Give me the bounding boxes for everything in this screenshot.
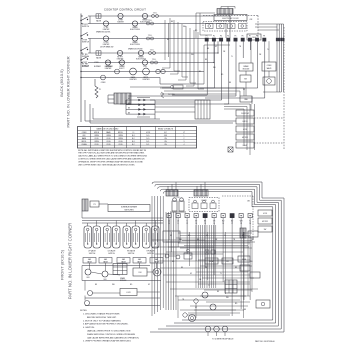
svg-text:T.O.D.: T.O.D. xyxy=(152,59,157,61)
svg-text:GY: GY xyxy=(206,235,208,237)
svg-text:IGNITER: IGNITER xyxy=(103,29,110,31)
svg-text:WH: WH xyxy=(179,239,182,241)
svg-text:SWITCH: SWITCH xyxy=(89,253,96,255)
svg-text:TN: TN xyxy=(182,299,184,301)
svg-text:CAUTION: LABEL ALL WIRES PRIOR: CAUTION: LABEL ALL WIRES PRIOR TO DISCON… xyxy=(78,155,148,158)
svg-text:BK: BK xyxy=(95,284,97,286)
svg-text:3: 3 xyxy=(184,141,185,143)
svg-text:USE COPPER WIRE ONLY. SEE INS: USE COPPER WIRE ONLY. SEE INSTALLATION I… xyxy=(78,163,135,166)
svg-text:YL: YL xyxy=(231,56,233,58)
svg-text:WH: WH xyxy=(251,239,254,241)
svg-text:N.C.: N.C. xyxy=(146,144,150,146)
svg-text:N.O.: N.O. xyxy=(132,135,136,137)
svg-text:WH: WH xyxy=(183,26,186,28)
svg-text:CAN CAUSE IMPROPER AND DANGERO: CAN CAUSE IMPROPER AND DANGEROUS OPERATI… xyxy=(87,336,140,339)
svg-text:1: 1 xyxy=(184,135,185,137)
svg-text:3. APPLIANCE MUST BE PROPERLY: 3. APPLIANCE MUST BE PROPERLY GROUNDED. xyxy=(83,323,129,326)
svg-text:BU: BU xyxy=(197,239,199,241)
svg-text:NOTE: ALL SWITCHES & IGNITORS: NOTE: ALL SWITCHES & IGNITORS SHOWN WITH… xyxy=(78,149,147,152)
svg-text:BU: BU xyxy=(229,82,231,84)
svg-text:BU: BU xyxy=(181,267,183,269)
svg-text:SURFACE BURNER: SURFACE BURNER xyxy=(121,206,138,209)
svg-text:T.O.D.: T.O.D. xyxy=(153,12,158,14)
svg-text:GY: GY xyxy=(190,255,192,257)
svg-text:YL: YL xyxy=(208,285,210,287)
svg-text:BK: BK xyxy=(235,267,237,269)
svg-text:TO 4 WIRE RECEPTACLE: TO 4 WIRE RECEPTACLE xyxy=(212,338,234,341)
svg-text:WHEN SERVICING CONTROLS. WIRIN: WHEN SERVICING CONTROLS. WIRING PROBLEMS xyxy=(87,334,136,336)
svg-text:PART NO. 8101P538-60: PART NO. 8101P538-60 xyxy=(255,340,275,343)
svg-text:COOKTOP CONTROL CIRCUIT: COOKTOP CONTROL CIRCUIT xyxy=(104,8,146,12)
svg-text:OPERATION. VERIFY PROPER OPERA: OPERATION. VERIFY PROPER OPERATION AFTER… xyxy=(78,160,144,163)
svg-text:P3: P3 xyxy=(220,36,222,38)
svg-text:YL: YL xyxy=(220,273,222,275)
svg-text:BK: BK xyxy=(167,39,169,41)
svg-text:BK: BK xyxy=(128,112,130,114)
svg-text:1. DISCONNECT RANGE FROM POWER: 1. DISCONNECT RANGE FROM POWER xyxy=(83,313,120,316)
svg-text:RT FRT: RT FRT xyxy=(118,62,124,64)
svg-text:N.C.: N.C. xyxy=(146,141,150,143)
svg-text:BK: BK xyxy=(128,108,130,110)
svg-text:P1: P1 xyxy=(99,89,101,91)
svg-text:LIGHT: LIGHT xyxy=(243,145,248,147)
svg-text:CLOCK: CLOCK xyxy=(201,200,207,202)
svg-text:SWITCH: SWITCH xyxy=(82,42,90,44)
svg-text:YL: YL xyxy=(267,49,269,51)
svg-text:P4: P4 xyxy=(227,36,229,38)
svg-text:BEFORE SERVICING THIS UNIT.: BEFORE SERVICING THIS UNIT. xyxy=(87,317,117,319)
svg-text:THE OFF POSITION. ALL SWITCHES: THE OFF POSITION. ALL SWITCHES ARE SHOWN… xyxy=(78,152,145,155)
svg-text:MODE: MODE xyxy=(94,132,99,134)
svg-text:P3: P3 xyxy=(94,204,96,206)
svg-text:ELECTRONIC CLOCK: ELECTRONIC CLOCK xyxy=(222,18,239,20)
svg-text:2: 2 xyxy=(184,138,185,140)
svg-text:BU: BU xyxy=(207,48,209,50)
svg-text:OFF: OFF xyxy=(82,135,85,137)
svg-text:P6: P6 xyxy=(242,36,244,38)
svg-text:MODULE: MODULE xyxy=(243,68,250,70)
svg-text:DOOR SW: DOOR SW xyxy=(241,113,249,115)
svg-text:BURNER: BURNER xyxy=(106,66,114,68)
svg-text:4: 4 xyxy=(184,144,185,146)
svg-text:P2: P2 xyxy=(213,36,215,38)
svg-text:BROIL: BROIL xyxy=(82,141,87,143)
svg-text:SWITCH: SWITCH xyxy=(128,253,135,255)
svg-text:BACK (8X10.5): BACK (8X10.5) xyxy=(59,69,64,97)
svg-text:IGNITER: IGNITER xyxy=(143,79,151,81)
svg-text:T.O.D.: T.O.D. xyxy=(148,35,153,37)
svg-text:LABEL ALL WIRES PRIOR TO DISCO: LABEL ALL WIRES PRIOR TO DISCONNECTION xyxy=(87,330,131,333)
svg-text:BU: BU xyxy=(244,309,246,311)
svg-text:GY: GY xyxy=(195,307,197,309)
svg-text:ELECTRODE: ELECTRODE xyxy=(130,44,140,46)
svg-text:IGNITER: IGNITER xyxy=(105,68,112,70)
svg-text:4. CAUTION:: 4. CAUTION: xyxy=(83,326,95,329)
svg-text:LT FRT: LT FRT xyxy=(118,20,123,22)
svg-text:MOTOR: MOTOR xyxy=(242,137,249,139)
svg-text:CONTROLS. WIRING ERRORS CAN CA: CONTROLS. WIRING ERRORS CAN CAUSE IMPROP… xyxy=(78,158,145,161)
svg-text:BK: BK xyxy=(171,21,173,23)
svg-text:WH: WH xyxy=(191,54,194,56)
svg-text:ELECTRODE: ELECTRODE xyxy=(130,29,140,31)
svg-text:PART NO. IN LOWER RIGHT CORNER: PART NO. IN LOWER RIGHT CORNER xyxy=(66,56,71,127)
svg-text:N.O.: N.O. xyxy=(132,141,136,143)
svg-text:TN: TN xyxy=(233,239,235,241)
svg-text:BK: BK xyxy=(242,235,244,237)
svg-text:2. MOTOR ONLY TO FLEXIBLE HARN: 2. MOTOR ONLY TO FLEXIBLE HARNESS. xyxy=(83,319,122,322)
svg-text:P1: P1 xyxy=(206,36,208,38)
svg-text:OFF: OFF xyxy=(164,135,167,137)
svg-text:P5: P5 xyxy=(234,36,236,38)
svg-text:P8: P8 xyxy=(256,36,258,38)
svg-text:BURNER: BURNER xyxy=(94,66,102,68)
svg-text:SWITCH: SWITCH xyxy=(82,26,90,28)
svg-text:BURNER: BURNER xyxy=(82,66,90,68)
svg-text:BROIL: BROIL xyxy=(118,132,123,134)
svg-text:P7: P7 xyxy=(249,36,251,38)
svg-text:OVEN: OVEN xyxy=(267,65,271,67)
svg-text:SWITCH: SWITCH xyxy=(147,253,154,255)
svg-text:WH: WH xyxy=(112,284,115,286)
svg-text:SWITCH: SWITCH xyxy=(108,253,115,255)
svg-text:N.C.: N.C. xyxy=(132,138,136,140)
svg-text:FRONT (8X10.5): FRONT (8X10.5) xyxy=(60,249,65,280)
svg-text:PART NO. IN LOWER RIGHT CORNER: PART NO. IN LOWER RIGHT CORNER xyxy=(68,223,73,300)
svg-text:BK: BK xyxy=(170,235,172,237)
svg-text:RT RR: RT RR xyxy=(106,62,112,64)
svg-text:GY: GY xyxy=(243,89,245,91)
svg-text:IGNITER: IGNITER xyxy=(130,79,138,81)
svg-text:YL: YL xyxy=(224,235,226,237)
svg-text:5. VERIFY PROPER OPERATION AFT: 5. VERIFY PROPER OPERATION AFTER SERVICI… xyxy=(83,340,132,343)
svg-text:TN: TN xyxy=(239,46,241,48)
svg-text:RT FRT: RT FRT xyxy=(117,57,123,59)
svg-text:WH: WH xyxy=(250,261,253,263)
svg-text:T.O.D.: T.O.D. xyxy=(150,49,155,51)
svg-text:BK: BK xyxy=(128,98,130,100)
svg-text:N.C.: N.C. xyxy=(132,144,136,146)
svg-text:P9: P9 xyxy=(263,36,265,38)
svg-text:MOTOR: MOTOR xyxy=(262,221,269,223)
svg-text:LT: LT xyxy=(183,132,185,134)
svg-text:WH: WH xyxy=(213,67,216,69)
svg-text:WH: WH xyxy=(226,297,229,299)
svg-text:BK: BK xyxy=(205,59,207,61)
svg-text:T.O.D.: T.O.D. xyxy=(148,20,153,22)
svg-text:L1: L1 xyxy=(133,132,135,134)
svg-text:RELAY CONTACTS: RELAY CONTACTS xyxy=(158,128,174,131)
svg-text:N.O.: N.O. xyxy=(146,135,150,137)
svg-text:BAKE LOW ON UNLOCKED: BAKE LOW ON UNLOCKED xyxy=(97,128,119,131)
svg-text:BK: BK xyxy=(217,291,219,293)
svg-text:LT FRT: LT FRT xyxy=(82,62,87,64)
svg-text:GY: GY xyxy=(190,273,192,275)
svg-text:IGN: IGN xyxy=(87,277,90,279)
svg-text:MODULE: MODULE xyxy=(120,280,126,282)
svg-text:NOTES:: NOTES: xyxy=(80,310,88,312)
svg-text:SWITCHES: SWITCHES xyxy=(124,209,134,211)
svg-text:RT RR: RT RR xyxy=(104,42,110,44)
svg-text:GY: GY xyxy=(148,284,150,286)
svg-text:ELECT.: ELECT. xyxy=(119,68,125,70)
svg-text:N.O.: N.O. xyxy=(146,138,150,140)
svg-text:GY: GY xyxy=(215,46,217,48)
svg-text:IGNITER: IGNITER xyxy=(103,44,110,46)
